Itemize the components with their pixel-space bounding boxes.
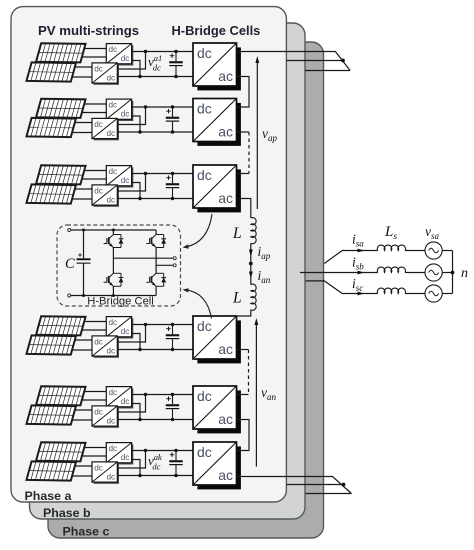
wire (72, 475, 92, 477)
wire (84, 447, 106, 449)
svg-text:dc: dc (109, 45, 118, 54)
node (174, 474, 177, 477)
IGBT S3 (top-right) (152, 235, 157, 239)
H-bridge cell block 5 (dc/ac) (197, 390, 241, 433)
terminal (68, 294, 71, 297)
wire dashed (more cells) (248, 350, 250, 395)
dc-dc converter row 6 upper (108, 444, 133, 464)
PV panel string 6 lower (27, 461, 76, 480)
capacitor row 6 (175, 451, 177, 461)
svg-text:dc: dc (197, 45, 212, 61)
wire dc bus top (132, 450, 193, 452)
svg-text:ac: ac (218, 467, 233, 483)
node (138, 348, 141, 351)
node (82, 294, 85, 297)
wire (75, 465, 92, 467)
capacitor row 5 (172, 395, 174, 405)
capacitor row 4 (172, 325, 174, 335)
IGBT S2 (bottom-left) (109, 273, 114, 277)
capacitor C (83, 230, 85, 258)
wire (82, 329, 107, 331)
terminal (68, 229, 71, 232)
wire (72, 198, 92, 200)
arrow i_sc (358, 292, 365, 296)
node (144, 50, 147, 53)
dc-dc converter row 5 lower (94, 408, 119, 428)
svg-text:H-Bridge Cells: H-Bridge Cells (172, 23, 261, 38)
PV panel string 5 upper (36, 386, 85, 405)
wire (72, 132, 92, 134)
wire (117, 52, 145, 70)
H-bridge cell block 1 (dc/ac) (197, 47, 241, 90)
dc-dc converter row 6 lower (94, 464, 119, 484)
wire dc bus bottom (117, 349, 193, 351)
svg-text:PV multi-strings: PV multi-strings (38, 23, 139, 38)
svg-text:ac: ac (218, 341, 233, 357)
wire inductor to block4 (237, 310, 251, 325)
svg-text:dc: dc (121, 453, 130, 462)
wire (117, 325, 145, 343)
wire (132, 460, 140, 476)
IGBT S4 (bottom-right) (152, 273, 157, 277)
svg-text:dc: dc (197, 167, 212, 183)
wire phase-a bottom output (237, 477, 352, 494)
arrow from cell 3 to inset (187, 214, 213, 247)
wire block2 to dashed (237, 131, 250, 133)
svg-text:H-Bridge Cell: H-Bridge Cell (87, 296, 154, 308)
inductor L (upper) (251, 218, 256, 244)
node (171, 393, 174, 396)
node (138, 197, 141, 200)
wire phase-c bottom output (306, 493, 352, 495)
dc-dc converter row 3 lower (94, 187, 119, 207)
svg-text:dc: dc (197, 318, 212, 334)
inductor L_s phase c (377, 288, 405, 293)
wire phase-b bottom output (287, 484, 344, 486)
svg-text:dc: dc (197, 388, 212, 404)
H-bridge cell block 4 (dc/ac) (197, 320, 241, 363)
wire (84, 103, 106, 105)
svg-text:dc: dc (106, 74, 115, 83)
wire dc bus top (132, 51, 193, 53)
svg-text:dc: dc (94, 464, 103, 473)
PV panel string 3 upper (36, 165, 85, 184)
wire dc bus top (132, 324, 193, 326)
PV panel string 1 upper (36, 43, 85, 62)
AC source v_sc (425, 285, 442, 302)
svg-text:dc: dc (94, 120, 103, 129)
svg-text:dc: dc (109, 318, 118, 327)
wire inset bottom rail (71, 295, 156, 297)
phase b panel (30, 23, 306, 519)
arrow from cell 4 to inset (187, 290, 212, 319)
wire dc bus bottom (117, 198, 193, 200)
wire (117, 174, 145, 192)
node (171, 197, 174, 200)
svg-text:Phase a: Phase a (25, 489, 72, 503)
wire (84, 321, 106, 323)
wire (132, 334, 140, 350)
node (144, 172, 147, 175)
dc-dc converter row 1 lower (94, 65, 119, 85)
wire (442, 272, 452, 274)
wire dc bus bottom (117, 475, 193, 477)
H-Bridge Cell inset box (57, 225, 181, 306)
inductor L (lower) (251, 284, 256, 310)
wire (75, 122, 92, 124)
wire (82, 56, 107, 58)
wire (132, 183, 140, 199)
svg-text:dc: dc (106, 347, 115, 356)
svg-text:dc: dc (106, 196, 115, 205)
dc-dc converter row 2 lower (94, 120, 119, 140)
IGBT S1 (top-left) (109, 235, 114, 239)
dc-dc converter row 4 lower (94, 338, 119, 358)
svg-text:ac: ac (218, 124, 233, 140)
svg-text:dc: dc (94, 408, 103, 417)
svg-text:dc: dc (94, 187, 103, 196)
PV panel string 4 lower (27, 335, 76, 354)
wire block3 down to inductor (237, 199, 251, 219)
svg-text:dc: dc (197, 444, 212, 460)
PV panel string 2 lower (27, 118, 76, 137)
phase c panel (48, 42, 324, 538)
node (174, 75, 177, 78)
AC source v_sb (425, 264, 442, 281)
wire (72, 76, 92, 78)
wire inset right leg (155, 230, 157, 235)
svg-text:dc: dc (94, 338, 103, 347)
wire i_sa from phase a (324, 251, 377, 264)
svg-text:dc: dc (109, 444, 118, 453)
wire phase-b top output (286, 60, 343, 62)
wire dc bus top (132, 106, 193, 108)
svg-text:dc: dc (197, 101, 212, 117)
svg-text:Phase c: Phase c (63, 525, 110, 539)
wire to block3 (237, 173, 250, 175)
svg-text:dc: dc (109, 101, 118, 110)
wire dashed (more cells) (248, 132, 250, 174)
PV panel string 6 upper (36, 442, 85, 461)
PV panel string 5 lower (27, 405, 76, 424)
node (138, 474, 141, 477)
svg-text:L: L (232, 225, 242, 242)
wire inset top rail (71, 229, 156, 231)
wire (442, 250, 452, 252)
dc-dc converter row 1 upper (108, 45, 133, 65)
node (138, 75, 141, 78)
node (171, 348, 174, 351)
dc-dc converter row 4 upper (108, 318, 133, 338)
capacitor row 2 (172, 107, 174, 117)
PV panel string 4 upper (36, 316, 85, 335)
svg-text:dc: dc (121, 397, 130, 406)
node (144, 105, 147, 108)
wire dc bus bottom (117, 76, 193, 78)
phase a panel (11, 7, 286, 502)
wire inset ac output 2 (156, 264, 173, 266)
wire (117, 451, 145, 469)
node (171, 418, 174, 421)
svg-text:dc: dc (121, 110, 130, 119)
svg-text:dc: dc (109, 388, 118, 397)
wire dc bus bottom (117, 131, 193, 133)
node (174, 50, 177, 53)
node (138, 130, 141, 133)
wire (117, 395, 145, 413)
node converter output (249, 262, 253, 266)
arrow v_an (255, 323, 257, 467)
wire (132, 404, 140, 420)
node (138, 418, 141, 421)
wire (75, 339, 92, 341)
arrow v_ap (256, 62, 258, 209)
wire (84, 391, 106, 393)
svg-text:L: L (232, 290, 242, 307)
wire i_sb from phase b (300, 272, 378, 274)
node (174, 449, 177, 452)
wire dc bus top (132, 394, 193, 396)
node (171, 130, 174, 133)
wire (442, 293, 452, 295)
wire neutral bus (452, 251, 454, 294)
dc-dc converter row 5 upper (108, 388, 133, 408)
svg-text:C: C (65, 256, 75, 272)
node n (451, 271, 455, 275)
wire with i_an arrow (250, 264, 252, 285)
wire i_sc from phase c (306, 281, 378, 294)
wire block4 to dashed (237, 349, 249, 351)
H-bridge cell block 3 (dc/ac) (197, 169, 241, 212)
wire (82, 178, 107, 180)
PV panel string 2 upper (36, 99, 85, 118)
inductor L_s phase b (377, 267, 405, 272)
wire (82, 112, 107, 114)
arrow i_sb (358, 271, 365, 275)
capacitor row 1 (175, 52, 177, 62)
dc-dc converter row 2 upper (108, 101, 133, 121)
wire phase-a top output (237, 52, 351, 71)
wire (84, 48, 106, 50)
svg-text:dc: dc (121, 54, 130, 63)
wire (84, 170, 106, 172)
H-bridge cell block 2 (dc/ac) (197, 103, 241, 146)
wire (72, 419, 92, 421)
wire (405, 293, 425, 295)
node (112, 229, 115, 232)
node (144, 323, 147, 326)
wire (82, 455, 107, 457)
wire (82, 399, 107, 401)
PV panel string 3 lower (27, 184, 76, 203)
node top bundle (341, 59, 345, 63)
svg-text:n: n (461, 266, 468, 281)
node (82, 229, 85, 232)
dc-dc converter row 3 upper (108, 167, 133, 187)
node (171, 172, 174, 175)
svg-text:ac: ac (218, 190, 233, 206)
node (171, 323, 174, 326)
svg-text:ac: ac (218, 68, 233, 84)
node (112, 294, 115, 297)
wire inset ac output 1 (113, 257, 173, 259)
inductor L_s phase a (377, 245, 405, 250)
svg-text:dc: dc (106, 129, 115, 138)
node (144, 449, 147, 452)
AC source v_sa (425, 242, 442, 259)
svg-text:dc: dc (121, 176, 130, 185)
svg-text:dc: dc (106, 473, 115, 482)
arrow i_sa (358, 249, 365, 253)
wire inset left leg (112, 230, 114, 235)
wire dc bus top (132, 173, 193, 175)
svg-text:Phase b: Phase b (43, 506, 91, 520)
wire phase-c top output (305, 70, 350, 72)
svg-text:dc: dc (106, 417, 115, 426)
wire (132, 61, 140, 77)
wire (75, 409, 92, 411)
wire (75, 188, 92, 190)
wire (405, 272, 425, 274)
wire (75, 66, 92, 68)
wire block1-block2 (237, 77, 250, 108)
svg-text:dc: dc (121, 327, 130, 336)
node (171, 105, 174, 108)
svg-text:dc: dc (109, 167, 118, 176)
node (144, 393, 147, 396)
wire (72, 349, 92, 351)
svg-text:dc: dc (94, 65, 103, 74)
H-bridge cell block 6 (dc/ac) (197, 446, 241, 489)
capacitor row 3 (172, 174, 174, 184)
PV panel string 1 lower (27, 62, 76, 81)
wire (117, 107, 145, 125)
svg-text:ac: ac (218, 411, 233, 427)
wire (405, 250, 425, 252)
wire block5-block6 (237, 420, 250, 451)
wire dc bus bottom (117, 419, 193, 421)
wire (132, 116, 140, 132)
node bottom bundle (342, 483, 346, 487)
wire with i_ap arrow (250, 243, 252, 263)
wire to block5 (237, 394, 249, 396)
